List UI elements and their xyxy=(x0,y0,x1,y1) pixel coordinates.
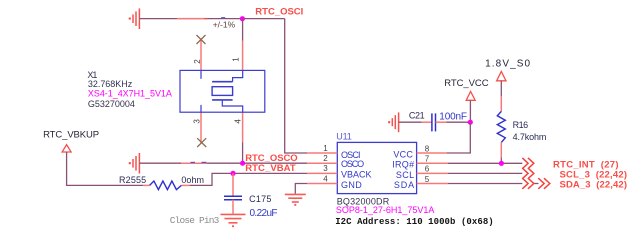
svg-text:6: 6 xyxy=(425,165,430,174)
svg-text:SCL: SCL xyxy=(396,170,414,180)
ground symbol G5 under U11 GND xyxy=(285,194,306,206)
svg-text:2: 2 xyxy=(323,154,328,163)
svg-text:VCC: VCC xyxy=(393,150,413,160)
svg-text:RTC_VBAT: RTC_VBAT xyxy=(245,163,296,174)
crystal X1 body xyxy=(180,70,265,112)
ground symbol G4 under C175 xyxy=(221,214,246,227)
svg-text:U11: U11 xyxy=(336,131,352,141)
svg-text:0ohm: 0ohm xyxy=(181,175,204,185)
svg-text:0.22uF: 0.22uF xyxy=(250,208,278,219)
svg-text:SDA: SDA xyxy=(394,180,414,190)
svg-text:7: 7 xyxy=(425,155,430,164)
resistor R16 bottom lead xyxy=(500,142,502,157)
svg-text:1.8V_S0: 1.8V_S0 xyxy=(485,58,530,69)
wire SCL to off-page xyxy=(448,172,522,174)
crystal X1 pin 3 stub xyxy=(200,112,202,143)
wire crystal pin4 down to RTC_OSCO row xyxy=(242,142,244,163)
svg-text:I2C Address: 110 1000b (0x68): I2C Address: 110 1000b (0x68) xyxy=(335,217,494,227)
wire RTC_VBKUP down and right xyxy=(67,152,144,185)
wire salmon overlay on RTC_OSCO xyxy=(181,162,207,164)
wire C21 to VCC junction xyxy=(446,121,470,123)
svg-text:4.7kohm: 4.7kohm xyxy=(513,132,547,142)
wire SDA short link xyxy=(534,183,539,185)
wire salmon overlay segment on RTC_OSCI xyxy=(177,18,204,20)
svg-text:3: 3 xyxy=(323,164,328,173)
resistor R2555 zigzag xyxy=(150,181,182,190)
resistor R16 top lead xyxy=(500,81,502,97)
U11 pin 5 stub xyxy=(417,183,448,185)
wire RTC_VCC symbol to junction xyxy=(469,100,471,122)
U11 pin 3 stub xyxy=(307,172,337,174)
capacitor C21 left lead xyxy=(422,121,432,123)
junction node crystal pin4 / OSCO xyxy=(240,161,245,166)
wire RTC_OSCI top horizontal xyxy=(139,18,284,20)
junction node RTC_VCC xyxy=(468,120,473,125)
wire crystal pin1 to junction xyxy=(242,19,244,41)
U11 pin 2 stub xyxy=(307,162,337,164)
svg-text:3: 3 xyxy=(193,119,202,124)
IC U11 body xyxy=(337,142,416,193)
U11 pin 1 stub xyxy=(307,152,337,154)
svg-text:1: 1 xyxy=(232,57,241,62)
power symbol 1.8V_S0 xyxy=(497,71,506,80)
svg-text:8: 8 xyxy=(425,144,430,153)
crystal X1 pin 1 stub xyxy=(242,41,244,71)
svg-text:100nF: 100nF xyxy=(439,111,467,122)
crystal X1 pin 2 stub xyxy=(200,40,202,70)
svg-text:4: 4 xyxy=(234,119,243,124)
wire VCC junction down to U11 pin 8 xyxy=(447,122,471,153)
junction node C175 tap xyxy=(230,171,235,176)
resistor R16 zigzag xyxy=(497,111,505,142)
capacitor C21 plates xyxy=(431,113,433,131)
svg-text:4: 4 xyxy=(323,174,328,183)
net marker dashes (blue) on RTC_OSCO xyxy=(191,162,196,163)
off-page connector RTC_INT xyxy=(522,158,534,169)
svg-text:G53270004: G53270004 xyxy=(88,99,135,109)
svg-text:R16: R16 xyxy=(513,120,529,130)
junction node RTC_OSCI xyxy=(240,16,245,21)
ground earth symbol G1 (RTC_OSCI net) xyxy=(129,8,140,29)
U11 pin 8 stub xyxy=(417,152,447,154)
off-page connector SDA xyxy=(522,178,534,189)
off-page connector SCL xyxy=(522,168,534,179)
svg-text:VBACK: VBACK xyxy=(341,170,372,180)
svg-text:RTC_OSCI: RTC_OSCI xyxy=(255,6,303,17)
capacitor C175 plates xyxy=(224,195,242,197)
svg-text:2: 2 xyxy=(193,59,202,64)
junction node R16 / IRQ xyxy=(499,161,504,166)
ground earth symbol G2 (RTC_OSCO net) xyxy=(129,153,140,174)
ground earth symbol G3 (C21) xyxy=(388,112,399,132)
capacitor C21 right lead xyxy=(436,121,447,123)
svg-text:XS4-1_4X7H1_5V1A: XS4-1_4X7H1_5V1A xyxy=(88,89,172,99)
svg-text:OSCO: OSCO xyxy=(341,159,364,169)
U11 pin 4 stub xyxy=(307,183,337,185)
U11 pin 7 stub xyxy=(417,162,448,164)
capacitor C175 top lead xyxy=(232,173,234,196)
svg-text:C175: C175 xyxy=(249,194,271,204)
svg-text:5: 5 xyxy=(425,175,430,184)
net marker dash (blue) on RTC_OSCI xyxy=(221,17,225,18)
power symbol RTC_VCC xyxy=(466,91,475,100)
svg-text:SOP8-1_27-6H1_75V1A: SOP8-1_27-6H1_75V1A xyxy=(336,205,435,215)
wire C21 left xyxy=(399,121,422,123)
capacitor C175 bottom lead xyxy=(232,200,234,214)
svg-text:C21: C21 xyxy=(409,111,425,121)
svg-text:Close Pin3: Close Pin3 xyxy=(170,215,220,226)
svg-text:RTC_VBKUP: RTC_VBKUP xyxy=(43,129,99,140)
wire IRQ# to off-page xyxy=(448,162,522,164)
svg-text:32.768KHz: 32.768KHz xyxy=(88,79,133,89)
U11 pin 6 stub xyxy=(417,172,448,174)
svg-text:+/-1%: +/-1% xyxy=(213,20,236,30)
wire R2555 to VBACK riser xyxy=(190,173,308,185)
power symbol RTC_VBKUP xyxy=(62,145,71,152)
svg-text:1: 1 xyxy=(323,144,328,153)
wire SDA to off-page xyxy=(448,183,522,185)
svg-text:R2555: R2555 xyxy=(119,175,146,185)
no-connect X on pin 3 xyxy=(197,138,206,147)
no-connect X on pin 2 xyxy=(197,35,206,44)
svg-text:GND: GND xyxy=(341,180,362,190)
wire RTC_OSCO row xyxy=(139,162,307,164)
svg-text:IRQ#: IRQ# xyxy=(392,159,414,169)
svg-text:RTC_VCC: RTC_VCC xyxy=(444,78,489,89)
wire RTC_OSCI vertical drop to U11 pin 1 xyxy=(285,19,308,153)
svg-text:SDA_3 (22,42): SDA_3 (22,42) xyxy=(560,180,628,191)
crystal X1 pin 4 stub xyxy=(242,112,244,142)
off-page connector SDA second xyxy=(538,178,550,189)
resistor R2555 leads xyxy=(143,184,149,186)
wire U11 GND pin to ground xyxy=(295,184,307,194)
